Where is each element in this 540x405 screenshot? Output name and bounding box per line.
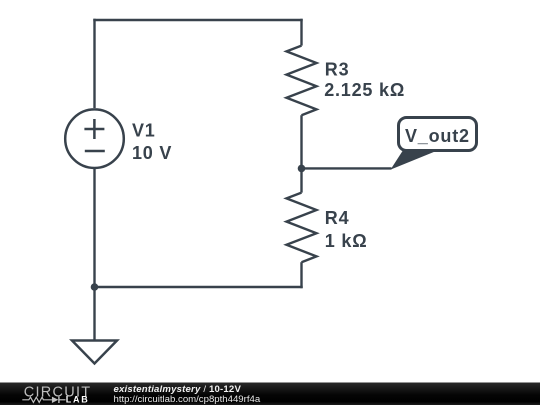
wire from V1 top to top-left corner [93,19,95,108]
svg-text:1 kΩ: 1 kΩ [325,231,368,251]
svg-text:V_out2: V_out2 [405,126,470,146]
svg-text:10 V: 10 V [132,143,172,163]
wire from top-right corner to R3 top [300,19,302,46]
voltage source V1 [65,109,124,168]
wire top horizontal [93,19,302,21]
wire between R3 and R4 [300,115,302,192]
wire from node to V_out2 flag [302,167,392,169]
node junction dot bottom-left [91,283,99,291]
resistor R4 [287,193,317,263]
ground symbol [72,287,117,364]
footer brand bar [0,383,540,405]
svg-text:R4: R4 [325,208,350,228]
svg-text:LAB: LAB [66,394,90,404]
node junction dot between R3 and R4 [298,165,306,173]
svg-text:V1: V1 [132,120,156,140]
wire from V1 bottom to bottom-left node [93,168,95,287]
wire from R4 bottom to bottom-right corner [300,262,302,288]
svg-text:2.125 kΩ: 2.125 kΩ [324,80,405,100]
CircuitLab logo: resistor zigzag symbol [22,397,52,402]
svg-text:http://circuitlab.com/cp8pth44: http://circuitlab.com/cp8pth449rf4a [114,394,261,405]
resistor R3 [287,46,317,116]
CircuitLab logo: diode symbol [52,397,66,403]
svg-text:R3: R3 [325,59,350,79]
net flag V_out2 [391,118,477,170]
wire bottom horizontal [95,286,303,288]
